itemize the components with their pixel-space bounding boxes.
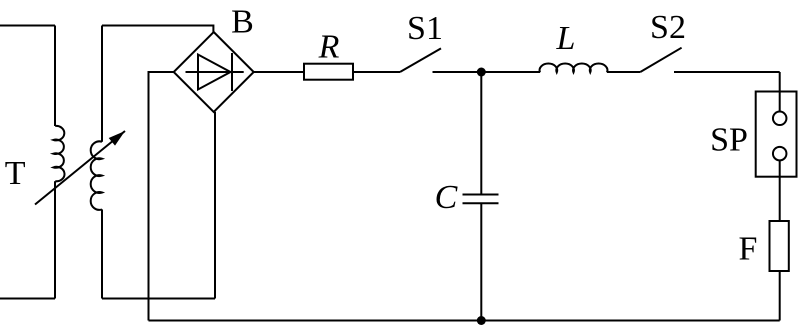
wire S2 to right corner (674, 71, 780, 73)
svg-text:S1: S1 (407, 10, 443, 47)
svg-text:R: R (318, 29, 340, 66)
wire resistor to switch S1 (353, 71, 400, 73)
switch S2 blade (640, 48, 681, 72)
wire right side down into SP (779, 72, 781, 112)
wire inductor to switch S2 (607, 71, 640, 73)
svg-text:B: B (231, 4, 254, 41)
wire primary loop bottom (0, 298, 55, 300)
wire secondary loop top horizontal (102, 26, 213, 33)
wire secondary loop bottom horizontal (102, 298, 215, 300)
wire secondary loop top vertical (101, 26, 103, 142)
node junction dot top (477, 68, 486, 77)
spark gap SP upper electrode (773, 112, 787, 126)
svg-text:T: T (5, 155, 26, 192)
wire S1 to node (433, 71, 541, 73)
transformer T secondary winding (91, 141, 102, 209)
bridge diode (186, 53, 244, 91)
svg-text:C: C (435, 179, 458, 216)
wire SP to fuse F (779, 160, 781, 221)
svg-text:L: L (556, 20, 576, 57)
svg-text:SP: SP (710, 122, 748, 159)
wire bridge left vertex to down rail (149, 72, 174, 321)
wire primary loop left-top vertical (54, 26, 56, 127)
resistor R (304, 64, 353, 80)
inductor L (540, 63, 608, 72)
wire node down to capacitor (480, 72, 482, 195)
wire secondary loop lower vertical (101, 209, 103, 298)
capacitor C plates (463, 195, 499, 204)
wire primary loop top (0, 25, 55, 27)
spark gap SP box (756, 92, 797, 177)
bridge rectifier B diamond (174, 32, 254, 112)
wire fuse to bottom rail (779, 271, 781, 321)
wire bridge bottom vertical (214, 112, 216, 299)
wire capacitor to bottom rail (480, 203, 482, 320)
node junction dot bottom (477, 316, 486, 325)
variable transformer arrow (35, 131, 125, 205)
spark gap SP lower electrode (773, 147, 787, 161)
svg-text:F: F (739, 231, 758, 268)
wire primary loop lower vertical (54, 181, 56, 298)
fuse F (770, 221, 789, 271)
transformer T primary winding (53, 126, 64, 181)
svg-text:S2: S2 (650, 9, 686, 46)
wire bridge right vertex to resistor (254, 71, 304, 73)
wire bottom rail (149, 320, 780, 322)
switch S1 blade (400, 48, 441, 72)
